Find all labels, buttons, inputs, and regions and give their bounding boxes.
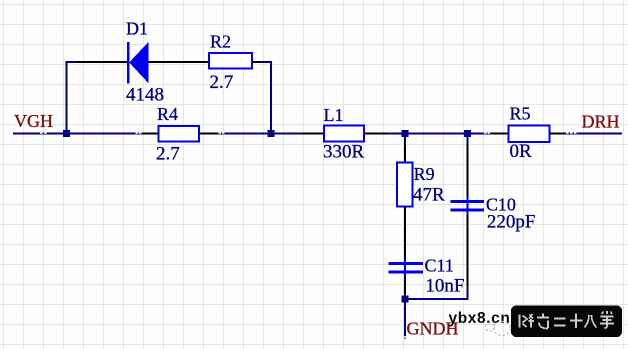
wire: stub above ground junction <box>404 294 406 300</box>
wire: right branch lower segment <box>467 286 469 300</box>
wire: stub below junction B <box>467 133 469 144</box>
svg-text:R2: R2 <box>210 32 231 52</box>
node junction B (C10 branch) <box>464 130 471 137</box>
resistor R9 <box>397 163 413 207</box>
wire: node between R4 and L1 <box>224 133 301 135</box>
wire: C10 top pin <box>467 143 469 197</box>
svg-text:10nF: 10nF <box>425 276 464 297</box>
diode D1 <box>128 42 148 84</box>
svg-text:ybx8.cn: ybx8.cn <box>449 310 511 327</box>
wire: DRH net segment <box>568 133 622 135</box>
svg-text:DRH: DRH <box>582 112 620 132</box>
wire: right vertical riser from diode branch <box>270 61 272 134</box>
wire: bottom horizontal joining C11 and C10 branches <box>404 298 469 300</box>
wire: D1 left pin <box>76 61 128 63</box>
wire: R5 right pin <box>550 133 569 135</box>
wire: L1 left pin <box>301 133 324 135</box>
wire: middle net between L1 and R5 <box>387 133 486 135</box>
resistor R2 <box>209 53 252 69</box>
svg-text:0R: 0R <box>510 141 533 162</box>
svg-text:R5: R5 <box>510 103 531 123</box>
svg-text:D1: D1 <box>126 19 148 39</box>
wire: R9 top pin <box>404 144 406 163</box>
wire: L1 right pin <box>364 133 387 135</box>
capacitor C11 <box>389 259 424 278</box>
node junction at VGH riser <box>63 130 70 137</box>
wire: R9 bottom pin down to C11 <box>404 207 406 260</box>
wire: R4 right pin <box>199 133 224 135</box>
svg-text:2.7: 2.7 <box>210 72 234 93</box>
svg-text:R4: R4 <box>157 104 178 124</box>
node junction at R2 branch rejoin <box>268 130 275 137</box>
wire: VGH net horizontal left segment <box>13 133 140 135</box>
wire: top branch stub at left corner <box>66 61 77 63</box>
watermark badge <box>511 306 622 338</box>
wire: C10 bottom pin <box>467 215 469 286</box>
svg-text:47R: 47R <box>413 184 445 205</box>
inductor L1 <box>324 126 364 142</box>
wire: stub below junction A <box>404 133 406 145</box>
svg-text:L1: L1 <box>324 105 344 125</box>
resistor R4 <box>159 126 200 142</box>
svg-text:C11: C11 <box>425 256 454 276</box>
svg-text:R9: R9 <box>414 164 435 184</box>
node junction at GNDH <box>402 296 409 303</box>
wire snap marks (faint) <box>40 133 577 339</box>
capacitor C10 <box>451 197 485 216</box>
wire: left vertical riser to diode branch <box>66 61 68 134</box>
wire: top branch stub at right corner <box>261 61 272 63</box>
wire: C11 bottom pin <box>404 278 406 295</box>
resistor R5 <box>509 126 550 143</box>
svg-text:VGH: VGH <box>14 111 53 131</box>
wire: R4 left pin <box>140 133 159 135</box>
svg-text:2.7: 2.7 <box>156 144 180 165</box>
watermark magnifier doodle <box>486 322 511 336</box>
svg-text:4148: 4148 <box>126 84 164 105</box>
wire: GNDH stub <box>404 299 406 339</box>
node junction A (R9 branch) <box>402 130 409 137</box>
wire: D1 right pin to R2 <box>148 61 209 63</box>
wire: R5 left pin <box>486 133 509 135</box>
svg-text:330R: 330R <box>323 142 365 163</box>
svg-text:220pF: 220pF <box>487 212 536 233</box>
wire: R2 right pin <box>252 61 261 63</box>
